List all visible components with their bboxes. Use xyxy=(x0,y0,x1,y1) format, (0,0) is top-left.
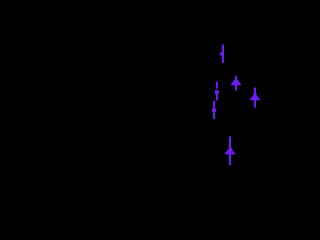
current arrow I2 (small up arrow on wire) xyxy=(215,82,219,101)
current arrow I1 (wire with left-pointing head) xyxy=(220,45,223,63)
current arrow I5 (up arrow on wire) xyxy=(250,88,260,108)
current arrow I4 (up arrow on wire) xyxy=(231,76,241,91)
current arrow I6 (up arrow on wire) xyxy=(225,136,236,165)
current arrow I3 (small up arrow on wire) xyxy=(212,101,216,119)
